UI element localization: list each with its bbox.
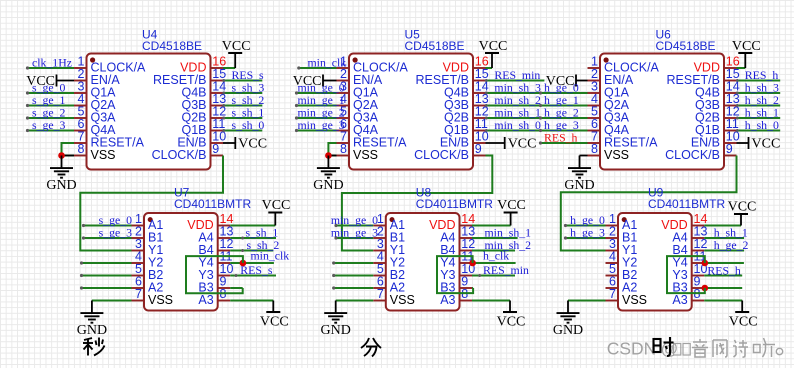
svg-text:CD4011BMTR: CD4011BMTR	[174, 197, 251, 211]
svg-text:GND: GND	[46, 178, 76, 193]
svg-text:min_ge_3: min_ge_3	[331, 226, 378, 240]
svg-text:VCC: VCC	[752, 137, 781, 152]
svg-text:min_clk: min_clk	[251, 249, 290, 263]
svg-text:CSDN: CSDN	[607, 339, 657, 359]
svg-text:8: 8	[78, 142, 85, 156]
svg-text:s_ge_3: s_ge_3	[32, 118, 66, 132]
svg-text:GND: GND	[564, 178, 594, 193]
svg-text:9: 9	[475, 142, 482, 156]
svg-text:VCC: VCC	[728, 200, 757, 215]
svg-text:CD4518BE: CD4518BE	[656, 39, 716, 53]
svg-text:A3: A3	[198, 293, 213, 307]
svg-text:VCC: VCC	[260, 315, 289, 330]
svg-text:min_clk: min_clk	[308, 56, 347, 70]
svg-text:CLOCK/B: CLOCK/B	[414, 148, 469, 162]
svg-text:CD4518BE: CD4518BE	[405, 39, 465, 53]
svg-text:9: 9	[212, 142, 219, 156]
svg-text:GND: GND	[77, 323, 107, 338]
svg-text:CLOCK/B: CLOCK/B	[665, 148, 720, 162]
svg-text:CLOCK/B: CLOCK/B	[152, 148, 207, 162]
svg-text:min_ge_3: min_ge_3	[298, 118, 345, 132]
svg-text:CD4518BE: CD4518BE	[142, 39, 202, 53]
svg-text:clk_1Hz: clk_1Hz	[32, 56, 72, 70]
svg-text:VCC: VCC	[732, 39, 761, 54]
svg-text:VCC: VCC	[222, 39, 251, 54]
svg-text:VCC: VCC	[497, 315, 526, 330]
svg-text:h_sh_0: h_sh_0	[745, 118, 779, 132]
svg-text:VSS: VSS	[604, 148, 629, 162]
svg-text:VSS: VSS	[91, 148, 116, 162]
svg-text:VCC: VCC	[262, 198, 291, 213]
svg-text:7: 7	[377, 287, 384, 301]
svg-text:A3: A3	[672, 293, 687, 307]
svg-text:8: 8	[340, 142, 347, 156]
svg-text:VSS: VSS	[622, 293, 647, 307]
svg-text:VSS: VSS	[353, 148, 378, 162]
svg-text:GND: GND	[321, 323, 351, 338]
svg-text:VCC: VCC	[479, 39, 508, 54]
svg-text:RES_h: RES_h	[544, 131, 578, 145]
svg-text:VCC: VCC	[729, 315, 758, 330]
svg-text:7: 7	[135, 287, 142, 301]
svg-text:CD4011BMTR: CD4011BMTR	[648, 197, 725, 211]
svg-text:CD4011BMTR: CD4011BMTR	[416, 197, 493, 211]
svg-text:h_ge_2: h_ge_2	[714, 238, 749, 252]
svg-text:VCC: VCC	[497, 198, 526, 213]
svg-text:9: 9	[726, 142, 733, 156]
svg-text:s_sh_0: s_sh_0	[232, 118, 265, 132]
svg-text:VSS: VSS	[148, 293, 173, 307]
svg-text:8: 8	[591, 142, 598, 156]
svg-text:RES_s: RES_s	[240, 263, 273, 277]
svg-text:A3: A3	[440, 293, 455, 307]
svg-text:VSS: VSS	[390, 293, 415, 307]
svg-text:VCC: VCC	[238, 137, 267, 152]
svg-text:7: 7	[609, 287, 616, 301]
svg-text:s_ge_3: s_ge_3	[99, 226, 133, 240]
svg-text:h_clk: h_clk	[483, 249, 509, 263]
svg-text:GND: GND	[553, 323, 583, 338]
svg-text:h_ge_3: h_ge_3	[570, 226, 605, 240]
svg-text:VCC: VCC	[26, 74, 55, 89]
svg-text:VCC: VCC	[508, 137, 537, 152]
svg-text:GND: GND	[313, 178, 343, 193]
svg-text:RES_min: RES_min	[483, 263, 529, 277]
svg-text:RES_h: RES_h	[707, 264, 741, 278]
svg-text:min_sh_0: min_sh_0	[494, 118, 541, 132]
